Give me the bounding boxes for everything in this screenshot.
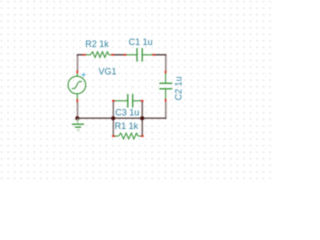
R2 pin terminal right	[111, 54, 114, 56]
VG1 pin terminal top	[76, 71, 78, 74]
wire node A down to R1 left pin	[112, 118, 114, 136]
resistor R2	[84, 52, 112, 58]
wire top-right corner vertical down to C2 top pin	[165, 54, 167, 70]
VG1 pin terminal bottom	[76, 99, 78, 102]
svg-text:C1 1u: C1 1u	[129, 37, 153, 47]
wire C1 right pin to top-right corner	[154, 54, 167, 56]
C1 pin terminal right	[152, 54, 155, 56]
svg-text:C3 1u: C3 1u	[115, 108, 139, 118]
voltage generator VG1	[68, 73, 86, 100]
svg-text:R1 1k: R1 1k	[115, 121, 139, 131]
R2 pin terminal left	[83, 54, 86, 56]
R1 pin terminal right	[141, 135, 144, 137]
wire top-left corner horizontal (to R2 left)	[77, 54, 85, 56]
wire top-left corner vertical (down to VG1 top)	[77, 54, 79, 70]
C2 pin terminal bottom	[165, 99, 167, 102]
capacitor C3	[113, 94, 142, 108]
node A junction	[111, 116, 115, 120]
C1 pin terminal left	[124, 54, 127, 56]
wire node B to node A	[113, 117, 142, 119]
wire node A to ground node	[77, 117, 113, 119]
R1 pin terminal left	[112, 135, 115, 137]
svg-text:C2 1u: C2 1u	[173, 76, 183, 100]
wire R2 right pin to C1 left pin	[113, 54, 125, 56]
wire node A up to C3 left pin	[112, 101, 114, 118]
ground	[72, 118, 84, 130]
svg-text:VG1: VG1	[99, 66, 117, 76]
wire VG1 bottom pin to ground node	[77, 102, 79, 118]
svg-text:R2 1k: R2 1k	[85, 39, 109, 49]
ground node junction	[75, 116, 79, 120]
node B junction	[140, 116, 144, 120]
C3 pin terminal right	[141, 100, 144, 102]
resistor R1	[113, 133, 142, 139]
capacitor C1	[125, 48, 154, 62]
VG1 plus polarity mark	[82, 73, 86, 77]
wire bottom-right corner to node B	[142, 117, 166, 119]
capacitor C2	[159, 73, 172, 100]
C3 pin terminal left	[112, 100, 115, 102]
wire node B up to C3 right pin	[141, 101, 143, 118]
wire node B down to R1 right pin	[141, 118, 143, 136]
C2 pin terminal top	[165, 71, 167, 74]
wire C2 bottom pin down to bottom-right corner	[165, 102, 167, 119]
